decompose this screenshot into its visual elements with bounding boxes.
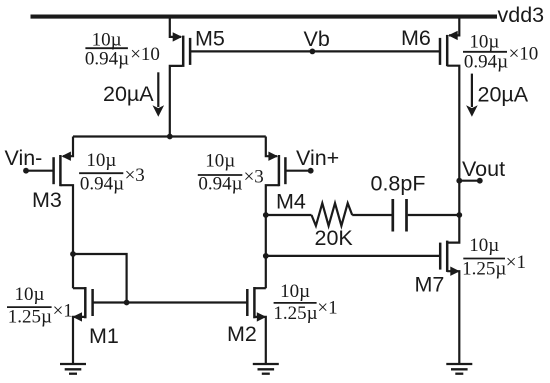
svg-text:Vout: Vout	[462, 157, 505, 181]
svg-text:0.94µ: 0.94µ	[198, 174, 242, 195]
svg-text:20µA: 20µA	[103, 82, 154, 106]
svg-text:1.25µ: 1.25µ	[8, 307, 52, 328]
svg-text:×3: ×3	[125, 165, 145, 186]
svg-text:M6: M6	[401, 26, 431, 50]
svg-text:Vin-: Vin-	[5, 146, 43, 170]
svg-text:M1: M1	[89, 324, 119, 348]
svg-text:1.25µ: 1.25µ	[273, 303, 317, 324]
svg-text:20µA: 20µA	[478, 83, 529, 107]
svg-text:0.94µ: 0.94µ	[464, 51, 508, 72]
svg-text:×3: ×3	[244, 167, 264, 188]
svg-text:10µ: 10µ	[280, 281, 310, 302]
svg-text:M7: M7	[415, 273, 445, 297]
svg-text:10µ: 10µ	[205, 151, 235, 172]
svg-text:M5: M5	[195, 27, 225, 51]
svg-text:×10: ×10	[130, 44, 160, 65]
svg-text:M4: M4	[276, 190, 306, 214]
svg-text:M3: M3	[32, 188, 62, 212]
svg-text:20K: 20K	[315, 226, 354, 250]
svg-text:10µ: 10µ	[15, 284, 45, 305]
svg-text:Vb: Vb	[304, 27, 330, 51]
svg-text:M2: M2	[227, 322, 257, 346]
svg-text:0.94µ: 0.94µ	[85, 49, 129, 70]
svg-text:10µ: 10µ	[86, 150, 116, 171]
svg-text:×1: ×1	[317, 297, 337, 318]
svg-text:Vin+: Vin+	[296, 146, 339, 170]
svg-text:0.8pF: 0.8pF	[371, 172, 426, 196]
svg-text:×1: ×1	[53, 301, 73, 322]
svg-text:10µ: 10µ	[92, 30, 122, 51]
svg-text:10µ: 10µ	[469, 31, 499, 52]
svg-text:10µ: 10µ	[469, 235, 499, 256]
svg-text:1.25µ: 1.25µ	[462, 258, 506, 279]
svg-text:×1: ×1	[506, 252, 526, 273]
svg-text:0.94µ: 0.94µ	[80, 173, 124, 194]
svg-text:vdd3: vdd3	[498, 3, 545, 27]
svg-text:×10: ×10	[509, 44, 539, 65]
